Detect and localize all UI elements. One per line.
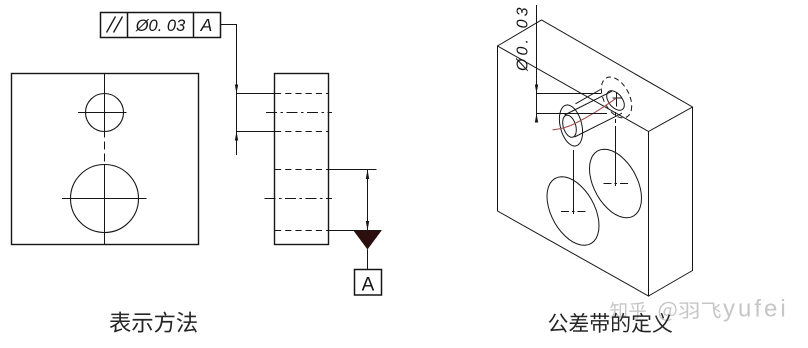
- svg-text:A: A: [200, 15, 213, 35]
- svg-text:Ø0. 03: Ø0. 03: [135, 17, 186, 35]
- svg-text:Ø0. 03: Ø0. 03: [515, 4, 532, 72]
- svg-text:yufei: yufei: [723, 296, 789, 323]
- svg-text:A: A: [362, 275, 375, 296]
